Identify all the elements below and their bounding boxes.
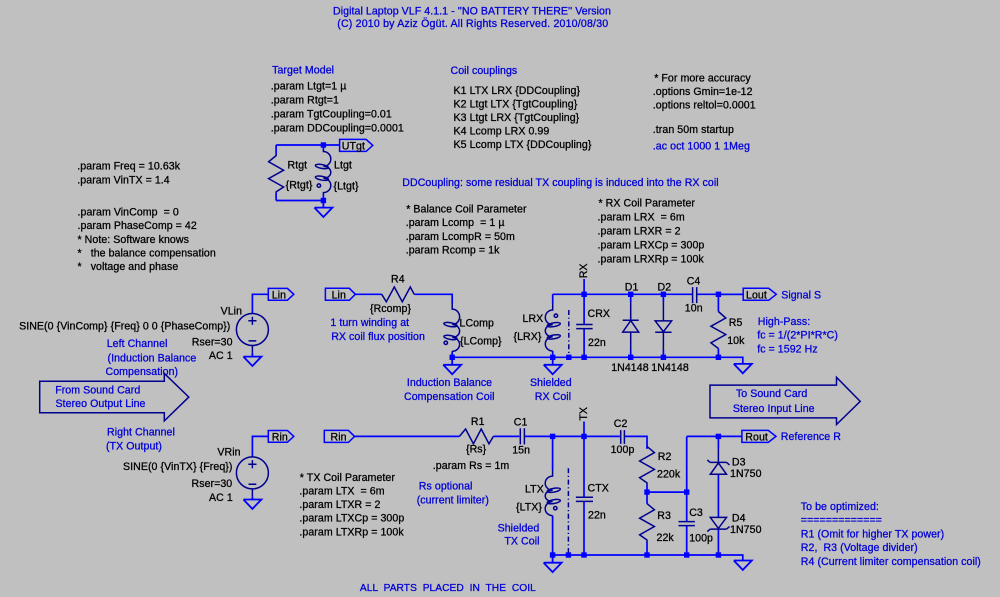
wire VLin to Lin flag [252, 294, 268, 313]
svg-text:1 turn winding at: 1 turn winding at [330, 317, 409, 329]
svg-text:.param LRX = 6m: .param LRX = 6m [598, 211, 685, 223]
wire target model left top lead [275, 145, 277, 154]
wire TX bottom rail [553, 555, 743, 561]
svg-text:(C) 2010 by Aziz Ögüt. All Rig: (C) 2010 by Aziz Ögüt. All Rights Reserv… [337, 18, 608, 30]
svg-text:{LTX}: {LTX} [516, 501, 542, 513]
svg-text:* Balance Coil Parameter: * Balance Coil Parameter [406, 204, 527, 216]
ground VLin [243, 353, 261, 366]
junction target model bottom [321, 198, 326, 203]
svg-text:{LRX}: {LRX} [514, 331, 542, 343]
svg-text:UTgt: UTgt [342, 141, 365, 153]
svg-text:Rtgt: Rtgt [288, 159, 308, 171]
svg-text:C3: C3 [689, 507, 703, 519]
capacitor C1 [520, 428, 524, 444]
wire C3 leads [686, 492, 688, 555]
junction R3 bottom [644, 552, 649, 557]
junction CTX bottom [581, 552, 586, 557]
svg-text:.param Freq = 10.63k: .param Freq = 10.63k [77, 161, 180, 173]
svg-text:.param LTX = 6m: .param LTX = 6m [299, 486, 384, 498]
svg-text:.ac oct 1000 1 1Meg: .ac oct 1000 1 1Meg [653, 141, 750, 153]
svg-text:.param Rtgt=1: .param Rtgt=1 [271, 95, 339, 107]
svg-text:Stereo Output Line: Stereo Output Line [56, 398, 146, 410]
svg-text:Rin: Rin [331, 432, 347, 444]
svg-text:LTX: LTX [525, 483, 544, 495]
wire R5 leads [717, 294, 719, 357]
svg-text:10n: 10n [685, 303, 703, 315]
svg-text:.param PhaseComp = 42: .param PhaseComp = 42 [78, 220, 197, 232]
capacitor C4 [693, 287, 697, 303]
junction D1 bottom [628, 355, 633, 360]
shield line TX coil [567, 468, 569, 555]
svg-text:Rser=30: Rser=30 [192, 478, 233, 490]
svg-text:CTX: CTX [588, 482, 609, 494]
svg-text:TX Coil: TX Coil [504, 536, 539, 548]
junction node TX / CTX top [581, 434, 586, 439]
junction CRX bottom [581, 355, 586, 360]
svg-text:Shielded: Shielded [530, 377, 572, 389]
wire R1 to C1 [493, 435, 519, 437]
diode D2 [655, 302, 671, 350]
svg-text:* Note: Software knows: * Note: Software knows [78, 234, 189, 246]
svg-text:DDCoupling: some residual TX c: DDCoupling: some residual TX coupling is… [402, 177, 718, 189]
svg-text:K4 Lcomp LRX 0.99: K4 Lcomp LRX 0.99 [454, 125, 550, 137]
svg-text:22n: 22n [588, 337, 606, 349]
voltage source VRin [236, 457, 268, 496]
svg-text:1N4148: 1N4148 [611, 362, 649, 374]
svg-text:.param LTXR = 2: .param LTXR = 2 [299, 499, 380, 511]
svg-text:Target Model: Target Model [272, 65, 334, 77]
capacitor C3 [679, 522, 695, 526]
svg-text:SINE(0 {VinTX} {Freq}): SINE(0 {VinTX} {Freq}) [123, 461, 232, 473]
wire C1 to C2 rail [525, 435, 620, 437]
resistor R2 [640, 446, 655, 485]
ground R5 [734, 364, 752, 373]
junction RX shield bottom [566, 355, 571, 360]
junction UTgt net top [321, 142, 326, 147]
svg-text:RX coil flux position: RX coil flux position [331, 331, 425, 343]
junction R5 bottom [716, 355, 721, 360]
svg-text:.param LTXCp = 300p: .param LTXCp = 300p [299, 513, 404, 525]
wire Ltgt bottom lead [322, 195, 324, 201]
wire LRX bottom lead [552, 351, 554, 357]
svg-text:AC 1: AC 1 [209, 350, 233, 362]
wire RX bottom rail [452, 357, 743, 364]
resistor Rtgt [269, 154, 284, 193]
ground TX rail end [734, 561, 752, 570]
wire riser to Rout rail [686, 436, 688, 492]
wire LRX top lead [552, 294, 554, 303]
resistor R4 [382, 287, 415, 302]
svg-text:Lin: Lin [332, 290, 346, 302]
net flag Lin at VLin [268, 288, 294, 301]
wire R2 R3 mid rail [647, 491, 687, 493]
svg-text:.param TgtCoupling=0.01: .param TgtCoupling=0.01 [271, 109, 392, 121]
zener diode D3 [707, 449, 729, 474]
svg-text:Signal S: Signal S [781, 290, 821, 302]
io arrow To Sound Card [710, 377, 860, 424]
svg-text:Induction Balance: Induction Balance [407, 377, 492, 389]
junction D3 top / Rout [716, 434, 721, 439]
svg-text:R3: R3 [657, 510, 671, 522]
zener diode D4 [707, 517, 729, 531]
wire target model left bottom lead [275, 193, 277, 201]
svg-text:Reference R: Reference R [781, 431, 841, 443]
svg-text:K2 Ltgt LTX {TgtCoupling}: K2 Ltgt LTX {TgtCoupling} [454, 98, 578, 110]
svg-text:22k: 22k [657, 532, 675, 544]
wire LTX bottom lead [552, 516, 554, 555]
svg-text:Rin: Rin [272, 432, 288, 444]
svg-text:.param LRXCp = 300p: .param LRXCp = 300p [598, 239, 705, 251]
svg-text:RX: RX [578, 263, 590, 278]
svg-text:fc = 1592 Hz: fc = 1592 Hz [757, 343, 818, 355]
wire RX top rail right of C4 [697, 293, 743, 295]
svg-text:1N4148: 1N4148 [651, 362, 689, 374]
wire node TX stub [583, 422, 585, 437]
wire D3 top lead [717, 436, 719, 449]
svg-text:K3 Ltgt LRX {TgtCoupling}: K3 Ltgt LRX {TgtCoupling} [454, 112, 580, 124]
wire D1 leads [630, 294, 632, 357]
svg-text:D1: D1 [625, 281, 639, 293]
svg-text:100p: 100p [611, 444, 635, 456]
svg-text:ALL PARTS PLACED IN THE C: ALL PARTS PLACED IN THE COIL [360, 583, 536, 594]
svg-text:AC 1: AC 1 [209, 492, 233, 504]
junction R5 top / C4 right [716, 292, 721, 297]
svg-text:.options reltol=0.0001: .options reltol=0.0001 [653, 100, 756, 112]
ground LComp [443, 357, 461, 374]
wire C2 to R2 corner [625, 436, 647, 449]
svg-text:Digital Laptop VLF 4.1.1 - ''N: Digital Laptop VLF 4.1.1 - ''NO BATTERY … [333, 6, 611, 18]
wire RX top rail left [553, 293, 692, 295]
junction LComp bottom [450, 355, 455, 360]
wire CTX bottom lead [583, 502, 585, 555]
svg-text:Left Channel: Left Channel [107, 338, 168, 350]
inductor Ltgt [315, 150, 331, 195]
capacitor C2 [621, 430, 625, 444]
wire D2 leads [662, 294, 664, 357]
svg-text:* TX Coil Parameter: * TX Coil Parameter [300, 472, 396, 484]
svg-text:D3: D3 [732, 456, 746, 468]
svg-text:{Rcomp}: {Rcomp} [370, 303, 411, 315]
wire Lin flag to R4 [355, 293, 381, 295]
wire LComp bottom lead [451, 351, 453, 357]
svg-text:R1: R1 [471, 416, 485, 428]
junction C3 bottom [684, 552, 689, 557]
diode D1 [623, 302, 639, 350]
wire R4 to LComp corner [414, 294, 452, 303]
svg-text:(current limiter): (current limiter) [417, 494, 489, 506]
svg-text:* voltage and phase: * voltage and phase [78, 261, 179, 273]
svg-text:Lin: Lin [272, 290, 286, 302]
capacitor CTX [576, 497, 593, 501]
ground VRin [243, 496, 261, 509]
voltage source VLin [236, 314, 268, 353]
wire D3 D4 link [717, 474, 719, 517]
junction R2 bottom [644, 489, 649, 494]
junction D1 top [628, 292, 633, 297]
svg-text:Ltgt: Ltgt [334, 159, 352, 171]
svg-text:R4: R4 [391, 274, 405, 286]
svg-text:R5: R5 [729, 317, 743, 329]
wire CRX top lead [583, 294, 585, 324]
svg-text:1N750: 1N750 [730, 524, 762, 536]
svg-text:.param Rs = 1m: .param Rs = 1m [433, 460, 510, 472]
svg-text:VRin: VRin [217, 447, 240, 459]
svg-text:1N750: 1N750 [730, 468, 762, 480]
svg-text:K5 Lcomp LTX {DDCoupling}: K5 Lcomp LTX {DDCoupling} [454, 139, 592, 151]
svg-text:fc = 1/(2*PI*R*C): fc = 1/(2*PI*R*C) [757, 330, 838, 342]
svg-text:.param Lcomp = 1 µ: .param Lcomp = 1 µ [406, 217, 505, 229]
svg-text:.param Ltgt=1 µ: .param Ltgt=1 µ [271, 81, 347, 93]
svg-text:* RX Coil Parameter: * RX Coil Parameter [599, 197, 696, 209]
svg-text:C1: C1 [514, 417, 528, 429]
svg-text:R4 (Current limiter compensati: R4 (Current limiter compensation coil) [801, 556, 981, 568]
svg-text:SINE(0 {VinComp} {Freq} 0 0 {P: SINE(0 {VinComp} {Freq} 0 0 {PhaseComp}) [19, 321, 230, 333]
svg-text:CRX: CRX [588, 308, 611, 320]
wire Ltgt top lead [322, 145, 324, 150]
wire target model bottom [276, 200, 323, 202]
svg-text:* For more accuracy: * For more accuracy [654, 73, 751, 85]
svg-text:{Rtgt}: {Rtgt} [286, 180, 313, 192]
svg-text:VLin: VLin [221, 305, 242, 317]
svg-text:Stereo Input Line: Stereo Input Line [733, 403, 815, 415]
svg-text:.param Rcomp = 1k: .param Rcomp = 1k [406, 244, 500, 256]
svg-text:100p: 100p [689, 533, 713, 545]
resistor R3 [640, 504, 655, 543]
svg-text:(Induction Balance: (Induction Balance [108, 352, 197, 364]
svg-text:.param VinTX = 1.4: .param VinTX = 1.4 [77, 174, 169, 186]
wire VRin to Rin flag [252, 436, 268, 457]
svg-text:To be optimized:: To be optimized: [801, 501, 879, 513]
svg-text:C4: C4 [687, 275, 701, 287]
svg-text:{Rs}: {Rs} [466, 443, 487, 455]
resistor R1 [459, 429, 493, 444]
wire CTX top lead [583, 436, 585, 497]
svg-text:.param DDCoupling=0.0001: .param DDCoupling=0.0001 [271, 123, 404, 135]
svg-text:Coil couplings: Coil couplings [451, 65, 518, 77]
svg-text:TX: TX [578, 407, 590, 421]
svg-text:R2, R3 (Voltage divider): R2, R3 (Voltage divider) [801, 542, 918, 554]
svg-text:Compensation Coil: Compensation Coil [404, 391, 495, 403]
junction D2 top [661, 292, 666, 297]
svg-text:.param LcompR = 50m: .param LcompR = 50m [406, 231, 515, 243]
net flag Lout [743, 288, 776, 301]
svg-text:RX Coil: RX Coil [535, 391, 571, 403]
net flag Rout [742, 430, 776, 443]
shield line RX coil [568, 310, 570, 357]
junction D4 bottom [716, 552, 721, 557]
svg-text:.param LRXRp = 100k: .param LRXRp = 100k [598, 253, 705, 265]
svg-text:Right Channel: Right Channel [107, 427, 175, 439]
svg-text:LRX: LRX [523, 313, 544, 325]
wire Lout flag link [718, 293, 743, 295]
junction LTX bottom [550, 552, 555, 557]
svg-text:* the balance compensation: * the balance compensation [78, 248, 216, 260]
svg-text:220k: 220k [657, 468, 681, 480]
svg-text:.param LRXR = 2: .param LRXR = 2 [598, 225, 681, 237]
inductor LTX [545, 470, 560, 516]
svg-text:Rout: Rout [745, 432, 768, 444]
svg-text:R1 (Omit for higher TX power): R1 (Omit for higher TX power) [801, 528, 944, 540]
net flag UTgt [340, 139, 373, 152]
net flag Rin at R1 branch [324, 430, 354, 443]
svg-text:Lout: Lout [746, 290, 767, 302]
wire LTX top lead [552, 436, 554, 470]
svg-text:{Ltgt}: {Ltgt} [334, 180, 360, 192]
junction node RX / CRX top [581, 292, 586, 297]
wire R2 bottom lead [646, 485, 648, 492]
svg-text:.options Gmin=1e-12: .options Gmin=1e-12 [653, 86, 753, 98]
resistor R5 [711, 312, 726, 349]
svg-text:D4: D4 [732, 513, 746, 525]
junction LRX bottom [550, 355, 555, 360]
ground LRX [544, 357, 562, 374]
svg-text:.param VinComp = 0: .param VinComp = 0 [78, 206, 179, 218]
inductor LRX [545, 303, 560, 351]
svg-text:Shielded: Shielded [498, 523, 540, 535]
junction D2 bottom [661, 355, 666, 360]
svg-text:Rs optional: Rs optional [419, 481, 473, 493]
net flag Lin at R4 branch [325, 288, 355, 301]
svg-text:(TX Output): (TX Output) [106, 441, 162, 453]
junction TX shield bottom [566, 552, 571, 557]
junction C3 top / divider tap [684, 489, 689, 494]
junction LTX top / C1 right [550, 434, 555, 439]
wire Rin flag to R1 [355, 435, 460, 437]
wire Rout rail [687, 435, 742, 437]
ground LTX [544, 555, 562, 572]
wire target model top [276, 144, 340, 146]
svg-text:.param LTXRp = 100k: .param LTXRp = 100k [299, 526, 404, 538]
svg-text:To Sound Card: To Sound Card [736, 388, 807, 400]
svg-text:From Sound Card: From Sound Card [55, 385, 140, 397]
svg-text:C2: C2 [614, 418, 628, 430]
wire R3 leads [646, 492, 648, 555]
svg-text:{LComp}: {LComp} [460, 335, 502, 347]
svg-text:15n: 15n [512, 445, 530, 457]
net flag Rin at VRin [268, 431, 294, 444]
capacitor CRX [576, 325, 592, 329]
svg-text:.tran 50m startup: .tran 50m startup [653, 124, 734, 136]
svg-text:High-Pass:: High-Pass: [758, 316, 810, 328]
svg-text:Rser=30: Rser=30 [192, 336, 233, 348]
svg-text:K1 LTX LRX {DDCoupling}: K1 LTX LRX {DDCoupling} [454, 85, 581, 97]
ground target model [314, 201, 332, 218]
svg-text:D2: D2 [658, 281, 672, 293]
svg-text:R2: R2 [658, 451, 672, 463]
io arrow From Sound Card [40, 373, 189, 421]
svg-text:=============: ============= [801, 515, 882, 527]
svg-text:10k: 10k [727, 335, 745, 347]
wire CRX bottom lead [583, 329, 585, 358]
wire D4 bottom lead [717, 529, 719, 555]
wire node RX stub [583, 279, 585, 294]
svg-text:LComp: LComp [460, 318, 494, 330]
svg-text:22n: 22n [588, 510, 606, 522]
inductor LComp [444, 303, 460, 351]
